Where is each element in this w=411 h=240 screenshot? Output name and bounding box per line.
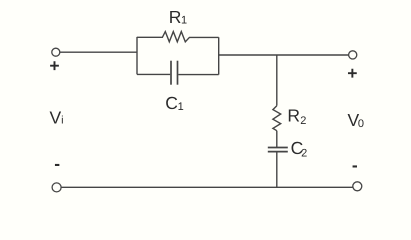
label C2 <box>291 138 308 159</box>
resistor R1 <box>137 32 219 42</box>
label V0 <box>348 110 365 130</box>
svg-text:-: - <box>352 155 358 175</box>
svg-text:0: 0 <box>358 118 364 130</box>
label R2 <box>287 106 306 127</box>
svg-text:+: + <box>49 56 59 76</box>
svg-text:+: + <box>347 63 357 83</box>
svg-text:-: - <box>54 153 60 173</box>
svg-text:2: 2 <box>300 115 306 127</box>
label C1 <box>165 93 183 113</box>
resistor R2 <box>273 106 281 131</box>
svg-text:R: R <box>287 106 300 126</box>
svg-text:R: R <box>169 7 182 27</box>
svg-text:i: i <box>61 114 63 126</box>
svg-text:2: 2 <box>301 147 307 159</box>
svg-text:1: 1 <box>181 15 187 27</box>
capacitor C1 <box>137 61 219 85</box>
wire: block to output terminal <box>219 54 349 56</box>
node: block right junction <box>218 37 220 74</box>
bottom wire <box>61 186 353 188</box>
label R1 <box>169 7 187 27</box>
svg-text:1: 1 <box>178 101 184 113</box>
terminal bottom-right <box>353 182 362 191</box>
svg-text:V: V <box>50 107 62 127</box>
node: block left junction <box>136 37 138 75</box>
output terminal top-right <box>349 51 357 59</box>
capacitor C2 <box>268 148 288 188</box>
wire: junction down to R2 <box>276 55 278 106</box>
input terminal top-left <box>52 48 60 56</box>
terminal bottom-left <box>52 183 61 192</box>
svg-text:C: C <box>165 93 178 113</box>
wire: top-left terminal to block <box>60 51 137 53</box>
label Vi <box>50 107 64 127</box>
wire: R2 to C2 <box>276 131 278 148</box>
